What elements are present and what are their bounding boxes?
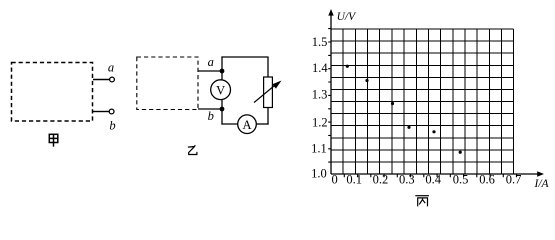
x tick labels <box>331 173 521 187</box>
data point 3 <box>391 102 394 105</box>
data point 6 <box>459 151 462 154</box>
graph grid <box>331 29 514 174</box>
caption 乙 <box>188 145 197 154</box>
wire top rail <box>221 56 268 58</box>
svg-text:0.1: 0.1 <box>346 173 362 187</box>
wire terminal a lead <box>93 79 109 81</box>
wire a lead <box>198 70 222 72</box>
wire right upper <box>267 57 269 77</box>
svg-text:a: a <box>208 55 214 69</box>
wire bottom right <box>256 123 268 125</box>
svg-text:0.6: 0.6 <box>479 173 495 187</box>
svg-text:0.7: 0.7 <box>506 173 522 187</box>
ammeter A <box>238 115 257 134</box>
y tick labels <box>311 35 328 181</box>
rheostat arrow <box>254 84 277 103</box>
wire right lower <box>267 108 269 125</box>
data point 5 <box>432 130 435 133</box>
wire terminal b lead <box>93 111 109 113</box>
svg-text:1.2: 1.2 <box>312 116 328 130</box>
terminal b open circle <box>109 109 114 114</box>
svg-text:1.0: 1.0 <box>311 167 327 181</box>
svg-text:U/V: U/V <box>337 11 358 23</box>
svg-text:0.2: 0.2 <box>373 173 389 187</box>
svg-text:0.5: 0.5 <box>453 173 469 187</box>
svg-text:V: V <box>216 83 225 97</box>
svg-text:I/A: I/A <box>534 178 550 190</box>
data point 1 <box>346 65 349 68</box>
wire a up <box>221 57 223 72</box>
y-axis U/V <box>330 13 332 174</box>
caption 丙 <box>415 196 429 207</box>
data point 4 <box>407 126 410 129</box>
junction b <box>220 107 225 112</box>
x-axis I/A <box>331 173 539 175</box>
battery box 乙 (dashed) <box>137 57 198 110</box>
voltmeter V <box>211 80 231 100</box>
svg-text:0.3: 0.3 <box>399 173 415 187</box>
svg-text:0.4: 0.4 <box>425 173 441 187</box>
y ticks <box>328 29 331 163</box>
svg-text:1.4: 1.4 <box>312 61 328 75</box>
wire bottom left <box>221 123 237 125</box>
wire b up <box>221 109 223 125</box>
rheostat body <box>264 77 273 108</box>
battery box 甲 (dashed) <box>12 63 93 122</box>
svg-text:b: b <box>109 119 115 133</box>
svg-text:b: b <box>208 109 214 123</box>
terminal a open circle <box>110 77 115 82</box>
svg-text:1.1: 1.1 <box>311 141 327 155</box>
junction a <box>220 69 225 74</box>
wire voltmeter top <box>221 71 223 80</box>
data point 2 <box>365 79 368 82</box>
wire voltmeter bottom <box>221 99 223 109</box>
x ticks <box>344 174 516 177</box>
svg-text:1.5: 1.5 <box>312 35 328 49</box>
svg-text:0: 0 <box>331 173 337 187</box>
wire b lead <box>198 108 222 110</box>
svg-text:a: a <box>108 61 114 75</box>
svg-text:1.3: 1.3 <box>312 87 328 101</box>
svg-text:A: A <box>242 118 251 132</box>
caption 甲 <box>49 134 58 146</box>
